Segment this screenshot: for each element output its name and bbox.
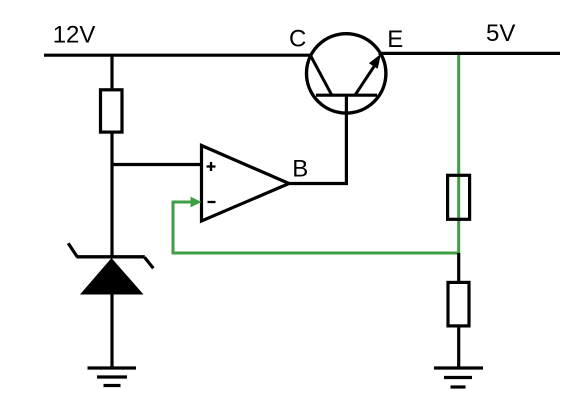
- wire: op-amp output to base lead corner: [287, 95, 346, 184]
- svg-text:E: E: [387, 26, 403, 53]
- transistor Q1 body circle: [307, 34, 386, 113]
- green feedback net: bottom horizontal run: [173, 252, 459, 255]
- svg-text:5V: 5V: [486, 20, 515, 47]
- svg-text:12V: 12V: [53, 21, 96, 48]
- svg-text:B: B: [292, 155, 308, 182]
- wire: zener to ground: [110, 295, 113, 369]
- wire: 12V rail (left segment to transistor collector): [44, 54, 312, 57]
- transistor Q1 emitter stroke: [355, 67, 374, 96]
- transistor Q1 base bar: [316, 94, 377, 97]
- resistor R3 (lower right): [448, 282, 469, 326]
- green feedback net: left vertical rise: [172, 202, 175, 254]
- wire: R1 down to zener: [110, 133, 113, 257]
- transistor Q1 collector stroke: [311, 56, 332, 96]
- op-amp U1 body: [202, 146, 290, 222]
- green feedback net: stub into op-amp inverting input: [172, 201, 192, 204]
- green feedback net: vertical drop from 5V rail through R2 to divider node: [457, 53, 460, 253]
- resistor R1: [101, 90, 123, 132]
- zener diode D1 cathode right tail: [145, 257, 154, 268]
- wire: divider node down to R3: [457, 253, 460, 283]
- zener diode D1 cathode bar: [77, 255, 145, 258]
- op-amp U1 minus sign: [208, 201, 216, 203]
- zener diode D1 cathode left tail: [68, 243, 77, 257]
- op-amp U1 plus sign: [207, 162, 216, 171]
- wire: 5V rail (emitter to right end): [379, 52, 561, 55]
- resistor R2 (upper right, green wire passes through): [448, 175, 470, 219]
- wire: R3 to ground: [457, 326, 460, 368]
- green arrowhead into inverting input: [191, 197, 202, 208]
- svg-text:C: C: [289, 26, 306, 53]
- wire: rail down to R1: [110, 55, 113, 89]
- ground (right): [434, 368, 483, 387]
- wire: node to op-amp non-inverting input: [111, 163, 201, 166]
- zener diode D1 anode triangle: [80, 258, 144, 295]
- transistor Q1 emitter arrowhead: [369, 54, 381, 69]
- ground (left): [88, 368, 137, 386]
